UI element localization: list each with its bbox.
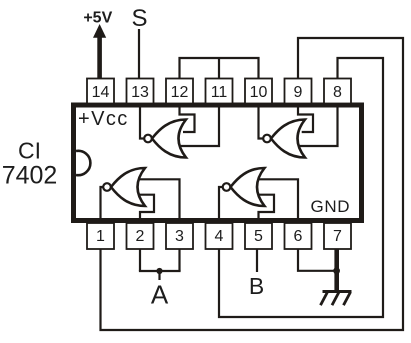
svg-text:3: 3 — [175, 228, 184, 245]
svg-text:2: 2 — [136, 228, 145, 245]
svg-text:7: 7 — [333, 228, 342, 245]
svg-text:+5V: +5V — [83, 10, 112, 27]
svg-text:14: 14 — [92, 84, 110, 101]
svg-text:+Vcc: +Vcc — [78, 108, 129, 130]
svg-text:5: 5 — [254, 228, 263, 245]
svg-text:10: 10 — [250, 84, 268, 101]
svg-text:B: B — [249, 273, 264, 299]
svg-text:11: 11 — [211, 84, 228, 101]
svg-text:13: 13 — [131, 84, 149, 101]
svg-text:S: S — [131, 5, 147, 32]
svg-text:7402: 7402 — [2, 162, 58, 190]
svg-text:A: A — [151, 280, 169, 310]
svg-text:9: 9 — [294, 84, 303, 101]
svg-text:1: 1 — [96, 228, 105, 245]
svg-text:8: 8 — [333, 84, 342, 101]
svg-text:GND: GND — [311, 197, 351, 216]
svg-text:12: 12 — [171, 84, 189, 101]
svg-text:4: 4 — [215, 228, 224, 245]
svg-text:CI: CI — [18, 138, 41, 164]
svg-text:6: 6 — [294, 228, 303, 245]
